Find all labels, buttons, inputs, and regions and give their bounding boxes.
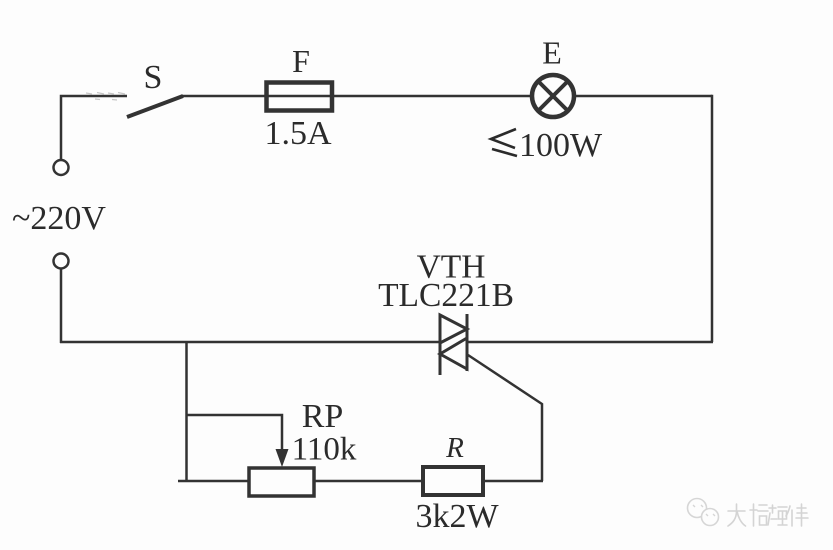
wire: R to gate vertical (483, 480, 543, 483)
svg-text:1.5A: 1.5A (264, 115, 332, 152)
svg-text:R: R (445, 432, 464, 464)
wire: left vertical below lower terminal (60, 269, 63, 344)
svg-text:TLC221B: TLC221B (378, 277, 514, 314)
wire: triac gate lead (468, 355, 542, 481)
wire: top-left horizontal from source to switch (61, 96, 127, 160)
svg-text:S: S (144, 59, 163, 96)
node B: lower supply terminal circle (54, 254, 69, 269)
wire noise ticks near switch (86, 93, 125, 101)
wire: bottom bus right segment (triac to right bus) (467, 341, 713, 344)
svg-text:~220V: ~220V (12, 200, 106, 237)
switch S blade (127, 96, 183, 117)
wire: bottom bus left segment (source to triac) (60, 341, 440, 344)
svg-text:RP: RP (302, 398, 344, 435)
wire: right vertical bus (711, 95, 714, 342)
node A: upper supply terminal circle (54, 160, 69, 175)
triac VTH TLC221B (440, 314, 467, 375)
svg-text:E: E (542, 35, 562, 71)
lamp E (532, 75, 574, 117)
label ≤100W (491, 129, 517, 156)
svg-text:F: F (292, 43, 310, 79)
wire: RP to R (314, 480, 423, 483)
wiper arrow of RP (276, 449, 289, 467)
potentiometer RP body (249, 468, 314, 496)
svg-text:3k2W: 3k2W (415, 498, 499, 535)
wire: branch to RP left (178, 480, 249, 483)
wire: lamp to right bus (574, 95, 712, 98)
svg-text:110k: 110k (292, 432, 357, 468)
wire: branch vertical from bottom bus (185, 342, 188, 482)
wire: switch to lamp (through fuse) (181, 95, 532, 98)
svg-text:100W: 100W (519, 127, 603, 164)
watermark text 大话硬件 (728, 504, 808, 526)
watermark logo bubbles (688, 499, 719, 526)
fuse F1 body (267, 83, 333, 111)
resistor R body (423, 467, 483, 495)
wire: wiper branch horizontal (187, 415, 283, 453)
